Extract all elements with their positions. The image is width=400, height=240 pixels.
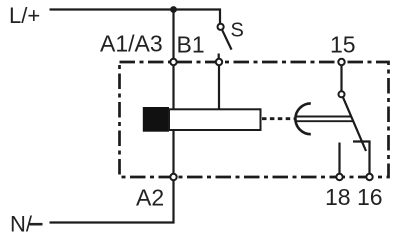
svg-text:B1: B1 bbox=[177, 32, 205, 58]
svg-text:18: 18 bbox=[325, 184, 351, 210]
svg-text:N/: N/ bbox=[10, 212, 33, 237]
svg-text:L/+: L/+ bbox=[9, 3, 40, 28]
svg-text:16: 16 bbox=[357, 184, 383, 210]
svg-text:15: 15 bbox=[330, 32, 356, 58]
svg-text:A2: A2 bbox=[136, 185, 164, 211]
svg-text:A1/A3: A1/A3 bbox=[100, 31, 163, 57]
svg-text:S: S bbox=[231, 20, 244, 42]
